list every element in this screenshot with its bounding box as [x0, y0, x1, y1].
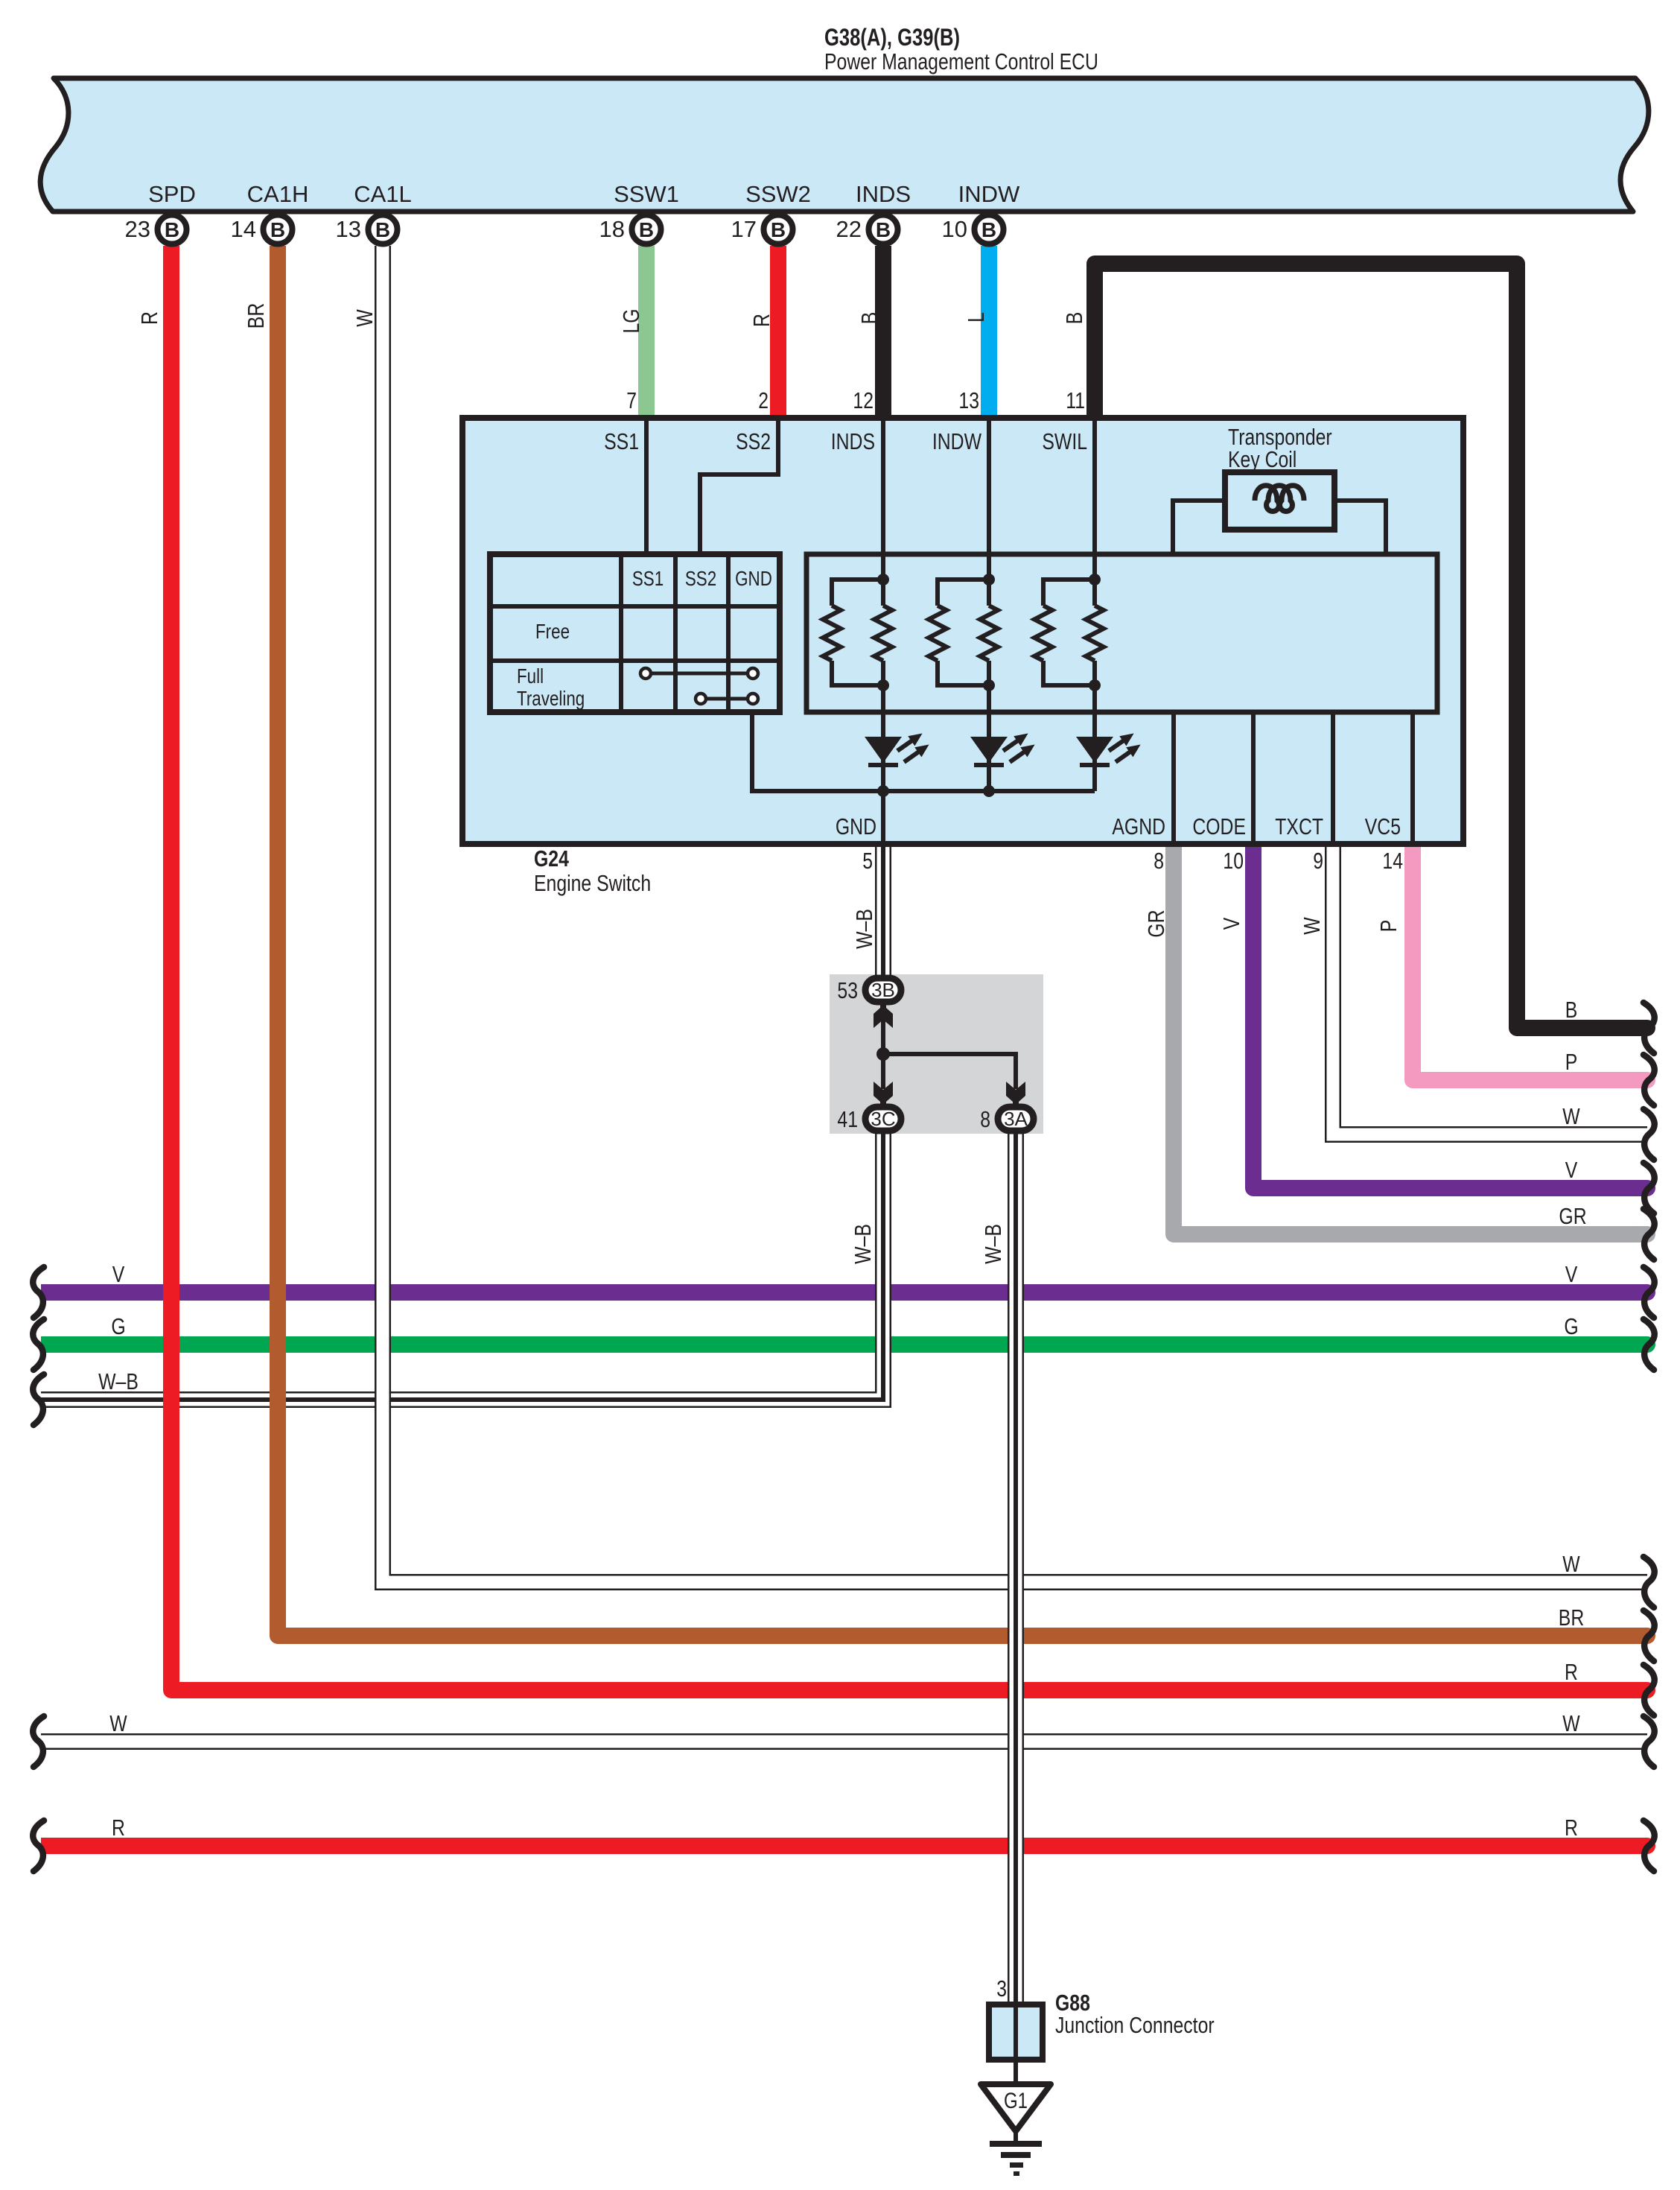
node SS2 internal line — [700, 421, 778, 554]
svg-text:G: G — [111, 1313, 125, 1339]
connector 3C pin 41 — [865, 1107, 901, 1131]
svg-text:P: P — [1375, 920, 1401, 933]
svg-text:3C: 3C — [871, 1108, 895, 1130]
LED SWIL — [1076, 737, 1113, 763]
wire coil left lead — [1173, 501, 1225, 554]
ground symbol — [1014, 2131, 1018, 2143]
svg-text:V: V — [1565, 1157, 1578, 1182]
wire V violet from CODE pin 10 — [1253, 842, 1647, 1188]
svg-text:2: 2 — [758, 387, 769, 413]
svg-text:17: 17 — [731, 216, 757, 242]
svg-text:INDS: INDS — [831, 428, 875, 454]
junction internal links — [883, 1019, 1016, 1089]
svg-text:V: V — [1218, 917, 1244, 930]
node SWIL internal line — [1092, 421, 1097, 606]
svg-text:GR: GR — [1559, 1203, 1586, 1228]
node TXCT internal line — [1331, 712, 1335, 844]
svg-text:3: 3 — [996, 1975, 1007, 2001]
wire W-B from GND pin 5 to junction 3B — [875, 842, 891, 978]
svg-text:W: W — [1562, 1103, 1580, 1129]
resistor pair INDS — [832, 580, 883, 606]
switch position contact table — [490, 554, 780, 712]
svg-text:R: R — [112, 1815, 125, 1840]
svg-text:53: 53 — [837, 977, 858, 1003]
svg-text:11: 11 — [1066, 387, 1085, 413]
svg-text:W: W — [1562, 1551, 1580, 1576]
svg-text:5: 5 — [862, 848, 873, 873]
svg-text:9: 9 — [1313, 848, 1323, 873]
svg-text:W: W — [109, 1710, 127, 1736]
svg-text:10: 10 — [942, 216, 967, 242]
svg-text:G24: G24 — [534, 845, 569, 871]
svg-text:INDW: INDW — [958, 181, 1020, 207]
svg-text:W: W — [1299, 917, 1324, 935]
svg-text:W–B: W–B — [851, 909, 876, 949]
svg-text:13: 13 — [336, 216, 361, 242]
wire LG light green SSW1 to SS1 — [638, 246, 655, 422]
wire B black from SWIL pin 11 to right edge — [1095, 264, 1647, 1028]
svg-text:B: B — [856, 312, 882, 325]
svg-text:B: B — [375, 218, 390, 241]
svg-text:CODE: CODE — [1192, 813, 1246, 839]
svg-text:L: L — [963, 312, 988, 323]
resistor pair SWIL — [1043, 580, 1095, 606]
svg-text:W–B: W–B — [980, 1224, 1005, 1264]
svg-text:W–B: W–B — [850, 1224, 875, 1264]
svg-text:G: G — [1564, 1313, 1578, 1339]
wire P pink from VC5 pin 14 — [1413, 842, 1647, 1080]
svg-text:3A: 3A — [1004, 1108, 1028, 1130]
svg-text:P: P — [1565, 1049, 1578, 1074]
wire W-B from junction 3A to G88 junction connector — [1008, 1133, 1024, 2005]
svg-text:G1: G1 — [1004, 2087, 1028, 2113]
wire R red SSW2 to SS2 — [770, 246, 786, 422]
svg-text:Full: Full — [517, 665, 544, 688]
wire break symbols right edge — [1644, 1003, 1655, 1053]
svg-text:GND: GND — [735, 568, 772, 591]
svg-text:R: R — [1565, 1815, 1578, 1840]
svg-text:B: B — [876, 218, 891, 241]
svg-text:R: R — [748, 314, 774, 327]
svg-text:18: 18 — [599, 216, 625, 242]
svg-text:Key Coil: Key Coil — [1228, 446, 1296, 472]
svg-text:SS2: SS2 — [685, 568, 716, 591]
svg-text:Junction Connector: Junction Connector — [1055, 2012, 1215, 2037]
svg-text:7: 7 — [626, 387, 637, 413]
wire V violet full-width — [41, 1284, 1647, 1301]
wire break symbols left edge — [33, 1267, 44, 1318]
svg-text:SS1: SS1 — [604, 428, 639, 454]
wire end caps right edge — [1638, 1020, 1647, 1036]
node INDW internal line — [987, 421, 991, 606]
wire W-B from junction 3C to left edge — [41, 1132, 883, 1400]
svg-text:12: 12 — [853, 387, 874, 413]
svg-text:8: 8 — [980, 1106, 990, 1131]
svg-text:SWIL: SWIL — [1042, 428, 1087, 454]
node INDS to GND internal line — [881, 421, 885, 606]
svg-text:14: 14 — [1382, 848, 1403, 873]
wire L blue INDW — [981, 246, 997, 422]
node AGND internal line — [1171, 712, 1176, 844]
wire G green full-width — [41, 1336, 1647, 1353]
svg-text:B: B — [1565, 997, 1578, 1022]
svg-text:B: B — [771, 218, 786, 241]
wire R red from SPD pin 23 — [171, 246, 1647, 1690]
wire B black INDS — [875, 246, 891, 422]
svg-text:B: B — [639, 218, 654, 241]
svg-text:W–B: W–B — [98, 1368, 139, 1394]
node CODE internal line — [1251, 712, 1256, 844]
svg-text:LG: LG — [618, 308, 643, 333]
node VC5 internal line — [1410, 712, 1415, 844]
svg-text:Power Management Control ECU: Power Management Control ECU — [824, 48, 1098, 74]
connector 3A pin 8 — [998, 1107, 1034, 1131]
svg-text:SPD: SPD — [148, 181, 196, 207]
resistor pair INDW — [938, 580, 989, 606]
svg-text:Engine Switch: Engine Switch — [534, 870, 651, 895]
engine switch G24 box — [462, 418, 1463, 844]
wire BR brown from CA1H pin 14 — [278, 246, 1647, 1636]
connector 3B pin 53 — [865, 978, 901, 1002]
svg-text:B: B — [165, 218, 179, 241]
wire GR gray from AGND pin 8 — [1174, 842, 1647, 1234]
svg-text:B: B — [981, 218, 996, 241]
connector arrow into 3A — [1006, 1082, 1025, 1106]
svg-text:GR: GR — [1143, 910, 1168, 937]
svg-text:23: 23 — [125, 216, 150, 242]
ECU pin connector circles with terminal letter B — [158, 215, 187, 244]
wire GND bus — [752, 712, 1095, 791]
svg-text:R: R — [136, 311, 162, 325]
wire W white from CA1L pin 13 — [383, 246, 1647, 1582]
svg-text:8: 8 — [1154, 848, 1164, 873]
svg-text:R: R — [1565, 1659, 1578, 1684]
svg-text:22: 22 — [836, 216, 862, 242]
svg-text:14: 14 — [231, 216, 256, 242]
svg-text:VC5: VC5 — [1365, 813, 1401, 839]
LED INDW — [970, 737, 1008, 763]
ground point G1 — [981, 2084, 1051, 2131]
resistor network box — [806, 554, 1437, 712]
svg-text:G38(A), G39(B): G38(A), G39(B) — [824, 25, 960, 51]
node GND bus junction dots — [877, 785, 889, 797]
svg-text:Free: Free — [535, 620, 570, 644]
svg-text:CA1H: CA1H — [247, 181, 309, 207]
svg-text:BR: BR — [243, 303, 268, 328]
svg-text:W: W — [1562, 1710, 1580, 1736]
svg-text:13: 13 — [958, 387, 979, 413]
svg-text:Traveling: Traveling — [517, 688, 585, 711]
wire coil right lead — [1334, 501, 1386, 554]
contact SS1-GND full traveling — [651, 672, 748, 676]
svg-text:INDS: INDS — [856, 181, 911, 207]
svg-text:SSW1: SSW1 — [614, 181, 679, 207]
node SS1 internal line — [644, 421, 649, 554]
wire R red full-width bottom — [41, 1838, 1647, 1854]
svg-text:TXCT: TXCT — [1275, 813, 1323, 839]
svg-text:B: B — [270, 218, 285, 241]
svg-text:CA1L: CA1L — [354, 181, 412, 207]
LED INDS — [865, 737, 902, 763]
svg-text:V: V — [112, 1261, 125, 1286]
svg-text:BR: BR — [1559, 1605, 1584, 1630]
svg-text:V: V — [1565, 1261, 1578, 1286]
svg-text:SSW2: SSW2 — [745, 181, 811, 207]
svg-text:3B: 3B — [871, 979, 895, 1001]
wire W white full-width — [41, 1733, 1647, 1750]
svg-text:SS1: SS1 — [632, 568, 664, 591]
svg-text:AGND: AGND — [1112, 813, 1165, 839]
svg-text:41: 41 — [837, 1106, 858, 1131]
svg-text:GND: GND — [836, 813, 876, 839]
svg-text:INDW: INDW — [932, 428, 982, 454]
svg-text:B: B — [1061, 312, 1086, 325]
wire W white from TXCT pin 9 — [1333, 842, 1647, 1134]
svg-text:10: 10 — [1223, 848, 1244, 873]
svg-text:W: W — [351, 309, 377, 327]
svg-text:SS2: SS2 — [736, 428, 771, 454]
contact SS2-GND full traveling — [706, 697, 748, 701]
connector arrow into 3B — [874, 1003, 893, 1028]
connector arrow into 3C — [874, 1082, 893, 1106]
junction block J3 shaded box — [830, 974, 1043, 1134]
ECU G38/G39 connector band — [40, 78, 1649, 212]
